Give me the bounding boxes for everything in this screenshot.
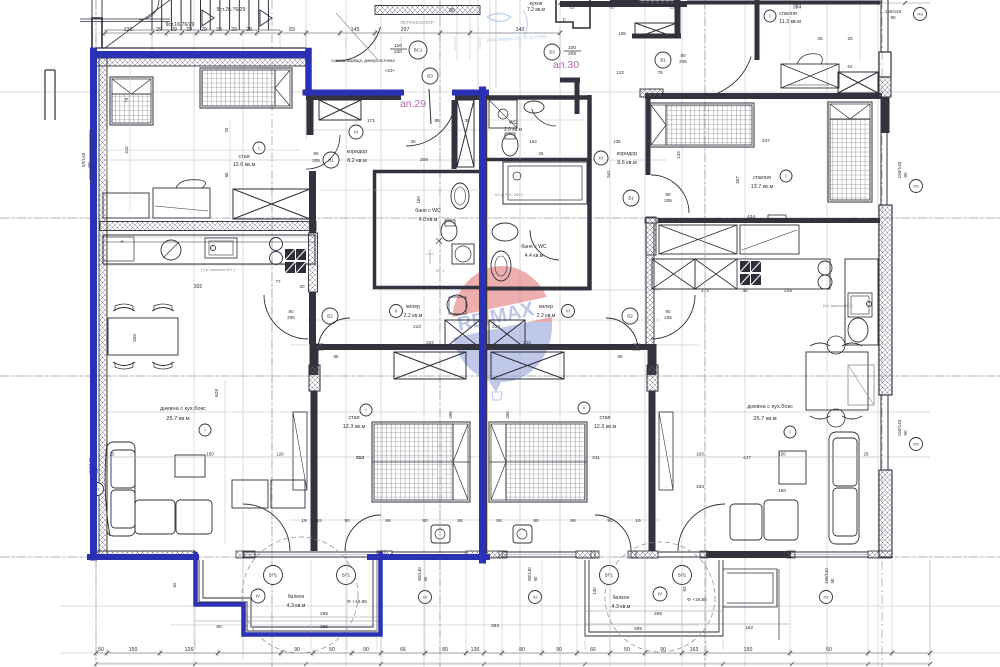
svg-text:66: 66 [385, 518, 391, 524]
bathtub [503, 162, 587, 204]
marker ВП1 [673, 566, 692, 585]
marker П3 [910, 180, 923, 193]
door arc right living [651, 295, 695, 339]
svg-text:2Л/140: 2Л/140 [81, 152, 86, 167]
svg-text:29: 29 [156, 27, 162, 33]
svg-text:396: 396 [505, 411, 510, 419]
stairwell top-left [105, 0, 280, 48]
svg-text:163: 163 [696, 484, 704, 490]
marker Л2 [419, 591, 432, 604]
entry door arc [336, 27, 380, 61]
svg-text:I: I [789, 430, 790, 435]
svg-text:205: 205 [664, 198, 672, 203]
svg-text:77: 77 [275, 279, 281, 284]
svg-text:12.6 кв.м: 12.6 кв.м [233, 162, 256, 168]
corridor wardrobe xbox [319, 100, 361, 120]
bath 4.4 [492, 223, 518, 241]
coffee table right [779, 451, 806, 484]
stair direction triangles [202, 10, 214, 26]
svg-text:25: 25 [224, 127, 229, 132]
svg-text:55: 55 [496, 518, 502, 524]
svg-text:163: 163 [696, 452, 704, 457]
svg-text:25: 25 [817, 36, 823, 41]
marker ВП1 [264, 566, 283, 585]
bath 4.0 walls [373, 170, 481, 174]
blue bottom left [90, 554, 196, 560]
svg-text:90: 90 [363, 647, 369, 653]
svg-text:628: 628 [214, 389, 220, 397]
svg-text:90: 90 [294, 647, 300, 653]
left apt: top wall [96, 47, 306, 49]
svg-text:163: 163 [690, 647, 699, 653]
svg-text:210: 210 [413, 324, 421, 330]
svg-text:150/140: 150/140 [885, 9, 902, 14]
svg-text:62: 62 [172, 582, 177, 587]
bath fixtures [451, 183, 469, 209]
svg-text:83: 83 [289, 27, 295, 33]
blue corridor top [306, 90, 402, 96]
svg-text:85: 85 [618, 354, 623, 359]
corridor top wall piece [632, 34, 681, 39]
svg-text:РЕТРАНСЛАТОР: РЕТРАНСЛАТОР [401, 20, 434, 25]
bed horizontal bedroom 13.7 [649, 103, 754, 147]
svg-text:50: 50 [329, 647, 335, 653]
blue right jog down [305, 51, 312, 93]
blue left edge [90, 51, 97, 557]
svg-text:66: 66 [590, 647, 596, 653]
marker П2 [91, 483, 104, 496]
marker I [253, 142, 265, 154]
blue balcony left [196, 554, 381, 635]
svg-text:29: 29 [246, 27, 252, 33]
svg-text:19: 19 [635, 518, 641, 524]
marker I [360, 404, 372, 416]
svg-text:коридор: коридор [617, 151, 638, 157]
svg-text:ВП1: ВП1 [342, 573, 351, 578]
svg-text:79: 79 [124, 97, 129, 102]
svg-text:стая: стая [348, 415, 359, 421]
svg-text:163: 163 [529, 139, 537, 144]
washing machine circle [447, 295, 467, 315]
svg-text:IV: IV [256, 594, 260, 599]
wall x306 corridor/bedroom [307, 96, 314, 135]
svg-text:302: 302 [194, 284, 203, 290]
right kitchen xbox counters [659, 225, 737, 254]
svg-text:541: 541 [606, 170, 611, 178]
svg-text:9ст.26.76/29: 9ст.26.76/29 [217, 7, 246, 13]
svg-text:410: 410 [124, 146, 129, 154]
svg-text:90: 90 [533, 576, 538, 581]
left bedroom xbox [394, 352, 466, 379]
svg-text:80: 80 [288, 309, 294, 314]
svg-text:224: 224 [426, 340, 434, 345]
stair door arc [139, 0, 159, 20]
svg-text:171: 171 [367, 118, 375, 124]
svg-text:III: III [566, 309, 570, 314]
blue corridor top right part [455, 90, 486, 96]
svg-text:балкон: балкон [613, 595, 630, 601]
marker П3 [914, 8, 927, 21]
svg-text:III: III [599, 156, 603, 161]
svg-text:килер: килер [406, 304, 420, 310]
wc 2.0 top [487, 95, 591, 100]
svg-text:66: 66 [400, 647, 406, 653]
svg-text:25.7 кв.м: 25.7 кв.м [166, 416, 189, 422]
svg-text:265: 265 [320, 611, 328, 617]
marker IV [653, 587, 667, 601]
svg-text:25: 25 [847, 36, 853, 41]
svg-text:ВП1: ВП1 [269, 573, 278, 578]
svg-text:90: 90 [344, 518, 350, 524]
top dimension row [105, 32, 560, 34]
svg-text:447: 447 [762, 138, 770, 144]
sofa corner [105, 442, 212, 536]
svg-text:80: 80 [665, 309, 671, 314]
svg-text:Б2: Б2 [627, 314, 633, 319]
svg-text:19: 19 [316, 518, 322, 524]
marker П2 [820, 591, 833, 604]
bedside stands [431, 525, 450, 543]
svg-text:150/140: 150/140 [824, 568, 829, 584]
svg-text:303: 303 [132, 334, 137, 342]
svg-text:спалня: спалня [753, 175, 771, 181]
svg-text:ВП1: ВП1 [605, 573, 614, 578]
svg-text:182: 182 [745, 625, 753, 631]
svg-text:135: 135 [613, 139, 621, 144]
svg-text:80/140: 80/140 [417, 567, 422, 581]
svg-text:130: 130 [124, 27, 133, 33]
svg-text:8.2 кв.м: 8.2 кв.м [347, 158, 367, 164]
dining table [108, 318, 178, 355]
svg-text:спалня: спалня [779, 11, 797, 17]
svg-text:Б3: Б3 [549, 50, 555, 55]
svg-text:55: 55 [457, 518, 463, 524]
corridor top wall right piece [455, 95, 483, 100]
svg-text:285: 285 [634, 626, 642, 632]
marker III [594, 151, 608, 165]
svg-text:210: 210 [492, 324, 500, 330]
svg-text:100: 100 [568, 45, 576, 51]
door thresholds [236, 551, 244, 558]
svg-text:20: 20 [299, 284, 305, 289]
svg-text:205: 205 [568, 51, 576, 57]
sofa right [730, 432, 859, 544]
svg-text:384: 384 [793, 5, 802, 11]
marker Б2 [622, 308, 638, 324]
left apt: corridor top wall [306, 92, 401, 94]
interior dim strings [129, 66, 131, 210]
svg-text:12.3 кв.м: 12.3 кв.м [594, 424, 617, 430]
bed 2 horizontal (staia 12.6) [200, 68, 292, 108]
svg-text:Л2: Л2 [533, 594, 539, 599]
armchair cushions [232, 480, 268, 508]
svg-text:килер: килер [539, 304, 553, 310]
svg-text:383: 383 [491, 623, 499, 629]
svg-text:80: 80 [665, 192, 671, 197]
coffee table [175, 455, 205, 477]
wall between bedroom11.3 and corridor [755, 0, 760, 60]
svg-text:Ф +19.85: Ф +19.85 [347, 599, 367, 605]
svg-text:I: I [769, 14, 770, 19]
tv shelf right living [659, 412, 673, 490]
svg-text:447: 447 [743, 455, 751, 461]
svg-text:198: 198 [618, 31, 626, 36]
svg-text:90: 90 [660, 647, 666, 653]
svg-text:дневна с кух.бокс: дневна с кух.бокс [160, 406, 206, 412]
svg-text:310: 310 [356, 455, 364, 461]
svg-text:80: 80 [519, 647, 525, 653]
svg-text:83: 83 [682, 586, 687, 591]
svg-text:75: 75 [657, 70, 663, 75]
marker I [780, 170, 792, 182]
svg-text:IV: IV [658, 592, 662, 597]
svg-text:стая: стая [599, 415, 610, 421]
svg-text:4.3 кв.м: 4.3 кв.м [612, 604, 631, 610]
svg-text:50: 50 [826, 647, 832, 653]
svg-text:ВП1: ВП1 [678, 573, 687, 578]
svg-text:13.7 кв.м: 13.7 кв.м [751, 184, 774, 190]
marker В1 [655, 52, 671, 68]
svg-text:29: 29 [216, 27, 222, 33]
stair left wall stub [92, 18, 102, 48]
svg-text:265: 265 [654, 611, 662, 617]
RE/MAX watermark balloon [448, 266, 556, 400]
marker Б2 [322, 308, 338, 324]
svg-text:90: 90 [903, 430, 908, 436]
left apt: bedroom/kitchen wall [100, 222, 316, 231]
bed vertical right wall [828, 102, 872, 202]
svg-text:ПР 1: ПР 1 [436, 269, 444, 273]
svg-text:123: 123 [616, 70, 624, 75]
svg-text:80: 80 [313, 151, 319, 156]
east wall right bedroom [648, 344, 657, 375]
left apt: left wall [99, 58, 107, 557]
svg-text:396: 396 [448, 411, 453, 419]
svg-text:ап.29: ап.29 [400, 98, 426, 110]
svg-text:140: 140 [592, 587, 597, 595]
svg-text:30: 30 [410, 139, 416, 144]
svg-text:8.6 кв.м: 8.6 кв.м [617, 160, 637, 166]
top right dim row [560, 2, 930, 4]
svg-text:В1: В1 [660, 58, 666, 63]
marker III [349, 125, 363, 139]
svg-text:КЗ ф PVC Ф110: КЗ ф PVC Ф110 [495, 193, 523, 197]
marker В1 [623, 190, 639, 206]
closet xbox tall [452, 100, 457, 169]
svg-text:213: 213 [523, 340, 531, 345]
hatch column right of bath [646, 217, 656, 255]
svg-text:77: 77 [562, 17, 567, 22]
svg-text:150: 150 [778, 488, 786, 494]
svg-text:80: 80 [422, 518, 428, 524]
left balcony outline thin [199, 560, 377, 631]
BLUE apartment 29 boundary : top edge [94, 51, 309, 58]
marker II [390, 305, 403, 318]
svg-text:80/140: 80/140 [527, 567, 532, 581]
svg-text:90: 90 [903, 172, 908, 178]
stove right [740, 261, 750, 272]
svg-text:80: 80 [533, 518, 539, 524]
svg-text:29: 29 [171, 27, 177, 33]
marker I [764, 10, 776, 22]
door arcs balcony [345, 515, 381, 551]
right bedroom xbox [491, 352, 564, 379]
svg-text:50: 50 [98, 647, 104, 653]
svg-text:[ Св. машина 60+ ]: [ Св. машина 60+ ] [201, 267, 235, 272]
svg-text:60: 60 [224, 172, 229, 177]
center party wall [480, 95, 488, 557]
wall x677 vertical stub [675, 0, 681, 36]
marker ВП1 [337, 566, 356, 585]
svg-text:83: 83 [212, 224, 218, 230]
marker Б3 [422, 68, 438, 84]
wall x645 [646, 99, 651, 175]
svg-text:150: 150 [206, 452, 214, 457]
shower drain [436, 238, 442, 244]
desk right [740, 225, 799, 254]
svg-text:19: 19 [650, 518, 656, 524]
svg-text:307: 307 [735, 176, 740, 184]
svg-text:150: 150 [744, 647, 753, 653]
door arc bedroom 11.3 [694, 57, 751, 99]
svg-text:150: 150 [129, 647, 138, 653]
top wall hatched part [639, 0, 674, 5]
marker П3 [910, 438, 923, 451]
svg-text:149: 149 [676, 151, 681, 159]
svg-text:285: 285 [320, 624, 328, 630]
svg-text:Б2: Б2 [327, 314, 333, 319]
right kitchen sink col [845, 259, 878, 345]
wall x645 low [646, 223, 654, 345]
svg-text:50: 50 [624, 647, 630, 653]
svg-text:2.2 кв.м: 2.2 кв.м [537, 313, 556, 319]
svg-text:230: 230 [394, 49, 402, 55]
svg-text:П3: П3 [913, 441, 919, 446]
svg-text:II: II [395, 309, 397, 314]
svg-text:25.7 кв.м: 25.7 кв.м [753, 416, 776, 422]
door arc bedroom 13.7 [651, 175, 689, 213]
svg-text:80: 80 [680, 53, 686, 58]
svg-text:4.4 кв.м: 4.4 кв.м [525, 253, 544, 259]
right exterior wall [880, 0, 882, 52]
svg-text:+22+: +22+ [385, 68, 396, 73]
svg-text:7.2 кв.м: 7.2 кв.м [527, 7, 546, 13]
svg-text:297: 297 [401, 27, 410, 33]
desk bedroom 11.3 [781, 64, 839, 88]
shower square [489, 100, 517, 128]
marker ВС1 [409, 41, 427, 59]
svg-text:126: 126 [185, 647, 194, 653]
svg-text:коридор: коридор [347, 149, 368, 155]
faint stamp top [487, 10, 527, 36]
top right jog wall [556, 0, 590, 28]
svg-text:19: 19 [301, 518, 307, 524]
svg-text:205: 205 [312, 158, 320, 163]
svg-text:4.3 кв.м: 4.3 кв.м [287, 603, 306, 609]
wardrobe xbox bedroom1 [233, 189, 310, 219]
svg-text:Б3: Б3 [427, 74, 433, 79]
wall y218-223 right apt [658, 218, 880, 223]
svg-text:29: 29 [201, 27, 207, 33]
entry top wall hatched [375, 6, 480, 15]
svg-text:П3: П3 [917, 11, 923, 16]
svg-text:126: 126 [276, 452, 284, 457]
svg-text:2.2 кв.м: 2.2 кв.м [404, 313, 423, 319]
marker Л2 [529, 591, 542, 604]
bottom dim row [96, 652, 930, 654]
svg-text:85: 85 [334, 354, 339, 359]
svg-text:I: I [204, 428, 205, 433]
svg-text:11.3 кв.м: 11.3 кв.м [779, 19, 801, 25]
bed 1 vertical (staia 12.6) [110, 77, 153, 125]
bottom wall segments [96, 551, 195, 558]
svg-text:29: 29 [186, 27, 192, 33]
tv dashed right [848, 365, 874, 405]
svg-text:4.0 кв.м: 4.0 кв.м [419, 217, 438, 223]
marker ВП1 [600, 566, 619, 585]
svg-text:стая: стая [238, 154, 249, 160]
marker В1 [323, 152, 339, 168]
right column east wall [587, 95, 592, 290]
tv shelf left living [293, 412, 307, 490]
svg-text:дневна с кух.бокс: дневна с кух.бокс [747, 404, 793, 410]
svg-text:29: 29 [231, 27, 237, 33]
svg-text:П3: П3 [913, 183, 919, 188]
right apt top wall [560, 1, 687, 7]
svg-text:62: 62 [848, 64, 853, 69]
left bedroom2 west wall [310, 344, 319, 375]
svg-text:120: 120 [394, 43, 402, 49]
window sill marks left wall [89, 130, 91, 180]
wall y158 [487, 158, 591, 162]
svg-text:40: 40 [742, 288, 748, 294]
marker I [199, 424, 211, 436]
svg-text:I: I [583, 406, 584, 411]
svg-text:136: 136 [471, 647, 480, 653]
svg-text:189: 189 [416, 196, 421, 204]
svg-text:I: I [785, 174, 786, 179]
door arc bedroom1 from corridor [306, 135, 340, 169]
svg-text:ап.30: ап.30 [553, 59, 579, 71]
svg-text:150: 150 [778, 452, 786, 457]
svg-text:150/140: 150/140 [897, 419, 902, 436]
dining table right [806, 352, 868, 410]
shaft lines above center [477, 0, 479, 88]
dash-dot axes [95, 0, 97, 667]
right bed (staia 12.3) [489, 422, 587, 502]
svg-text:25: 25 [539, 151, 544, 156]
svg-text:90: 90 [556, 647, 562, 653]
svg-text:Ф +19.85: Ф +19.85 [687, 597, 707, 603]
blue bottom right segment [370, 554, 487, 560]
svg-text:90: 90 [216, 624, 222, 630]
marker III [562, 305, 575, 318]
svg-text:90: 90 [830, 578, 835, 583]
left balcony dashed circle [242, 537, 358, 653]
svg-text:[Св. машина 60+]: [Св. машина 60+] [823, 304, 854, 308]
kiler xbox [445, 320, 480, 348]
svg-text:311: 311 [592, 455, 600, 461]
corridor wardrobe xbox right [635, 23, 677, 38]
svg-text:80: 80 [442, 647, 448, 653]
left bed (staia 12.3) [372, 422, 470, 502]
svg-text:140: 140 [516, 27, 525, 33]
svg-text:85: 85 [434, 118, 440, 123]
svg-text:12.3 кв.м: 12.3 кв.м [343, 424, 366, 430]
svg-text:145: 145 [351, 27, 360, 33]
marker I [578, 402, 590, 414]
svg-text:235: 235 [784, 288, 792, 294]
